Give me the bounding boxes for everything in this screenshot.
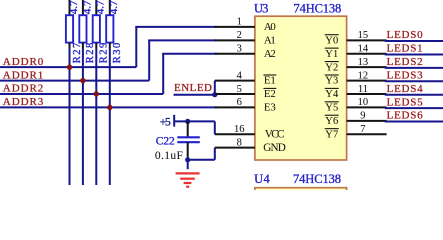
wire LEDS4: [385, 94, 443, 96]
svg-text:74HC138: 74HC138: [294, 1, 342, 15]
pin 2 stub (left): [215, 39, 255, 41]
pin 11 stub (right): [347, 93, 387, 95]
svg-text:Y2: Y2: [325, 62, 338, 73]
pin name E1: [263, 75, 276, 87]
svg-text:14: 14: [358, 44, 369, 55]
IC U4 body (cropped): [255, 188, 347, 200]
svg-text:12: 12: [358, 70, 369, 81]
wire VCC vertical bend: [214, 121, 216, 134]
svg-text:ADDR3: ADDR3: [3, 96, 44, 108]
junction dot ADDR0: [67, 64, 72, 69]
svg-text:ADDR2: ADDR2: [3, 83, 44, 95]
wire LEDS3: [385, 80, 443, 82]
junction dot GND: [185, 157, 190, 162]
svg-text:2: 2: [237, 30, 242, 41]
resistor R29: [93, 0, 110, 63]
resistor R28: [79, 0, 96, 63]
wire ADDR0 to pin 1: [135, 26, 217, 28]
pin 3 stub (left): [215, 53, 255, 55]
svg-text:7: 7: [360, 124, 365, 135]
svg-text:R29: R29: [99, 43, 110, 64]
pin name Y1: [325, 48, 339, 60]
wire ADDR1 to pin 2: [148, 39, 217, 41]
svg-text:Y6: Y6: [325, 116, 338, 127]
svg-text:Y3: Y3: [325, 76, 338, 87]
pin 16 stub (left): [215, 133, 255, 135]
wire ENLED horizontal: [174, 94, 215, 96]
pin 13 stub (right): [347, 66, 387, 68]
pin name E2: [263, 88, 276, 100]
svg-text:1: 1: [237, 17, 242, 28]
pin name Y5: [325, 102, 339, 114]
wire column 2 (vertical): [82, 49, 84, 186]
+5 bar: [173, 115, 175, 127]
wire column 1 (vertical): [69, 49, 71, 186]
svg-text:9: 9: [360, 111, 365, 122]
junction dot ENLED: [212, 92, 217, 97]
svg-text:E1: E1: [264, 75, 276, 87]
svg-text:15: 15: [358, 30, 369, 41]
junction dot +5: [185, 119, 190, 124]
pin name Y6: [325, 115, 339, 127]
wire ADDR0 vertical bend: [135, 27, 137, 67]
svg-text:LEDS2: LEDS2: [387, 56, 423, 68]
wire LEDS6: [385, 121, 443, 123]
svg-text:16: 16: [234, 124, 245, 135]
pin 6 stub (left): [215, 106, 255, 108]
svg-text:+5: +5: [160, 117, 171, 129]
svg-text:LEDS5: LEDS5: [387, 96, 424, 108]
resistor R30: [106, 0, 123, 63]
pin name Y3: [325, 75, 339, 87]
wire GND vertical to pin 8: [214, 148, 216, 160]
svg-text:LEDS0: LEDS0: [387, 29, 424, 41]
wire ADDR3 horizontal: [0, 106, 217, 108]
wire LEDS2: [385, 67, 443, 69]
pin 1 stub (left): [215, 26, 255, 28]
wire ADDR2 horizontal: [0, 93, 163, 95]
svg-text:3: 3: [237, 44, 242, 55]
svg-text:11: 11: [358, 84, 368, 95]
wire ADDR2 vertical bend: [162, 54, 164, 94]
svg-text:GND: GND: [263, 142, 286, 154]
wire ADDR2 to pin 3: [162, 53, 217, 55]
wire +5 to VCC bend: [174, 120, 215, 122]
pin 8 stub (left): [215, 147, 255, 149]
svg-text:ADDR0: ADDR0: [3, 56, 44, 68]
pin 5 stub (left): [215, 93, 255, 95]
svg-text:74HC138: 74HC138: [293, 172, 341, 186]
pin name Y0: [325, 35, 339, 47]
junction dot ADDR2: [94, 91, 99, 96]
wire ADDR0 horizontal: [0, 66, 136, 68]
pin 10 stub (right): [347, 106, 387, 108]
op-amp/IC U3 74HC138 body: [255, 16, 347, 160]
wire GND horizontal: [188, 159, 215, 161]
wire LEDS5: [385, 107, 443, 109]
svg-text:10: 10: [358, 97, 369, 108]
wire column 3 (vertical): [95, 49, 97, 186]
svg-text:A0: A0: [264, 21, 276, 33]
svg-text:Y5: Y5: [325, 103, 338, 114]
svg-text:4: 4: [237, 70, 243, 81]
svg-text:0.1uF: 0.1uF: [155, 150, 183, 162]
pin 14 stub (right): [347, 53, 387, 55]
svg-text:U3: U3: [254, 1, 268, 15]
wire column 4 (vertical): [109, 49, 111, 186]
svg-text:R27: R27: [72, 43, 83, 64]
svg-text:8: 8: [237, 138, 242, 149]
svg-text:5: 5: [237, 84, 242, 95]
svg-text:A1: A1: [264, 34, 276, 46]
svg-text:4.7: 4.7: [81, 0, 93, 14]
svg-text:13: 13: [358, 57, 369, 68]
svg-text:4.7: 4.7: [95, 0, 107, 14]
pin name Y4: [325, 88, 339, 100]
svg-text:VCC: VCC: [265, 128, 285, 140]
svg-text:LEDS4: LEDS4: [387, 83, 424, 95]
wire ADDR1 vertical bend: [148, 40, 150, 80]
capacitor C22: [177, 121, 200, 159]
svg-text:ENLED: ENLED: [174, 82, 212, 94]
pin 7 stub (right): [347, 133, 387, 135]
svg-text:LEDS1: LEDS1: [387, 43, 423, 55]
ground symbol: [176, 160, 200, 187]
svg-text:Y0: Y0: [325, 35, 338, 46]
resistor R27: [66, 0, 83, 63]
svg-text:R30: R30: [112, 43, 123, 64]
svg-text:Y4: Y4: [325, 89, 339, 100]
pin 15 stub (right): [347, 39, 387, 41]
svg-text:A2: A2: [264, 48, 276, 60]
wire LEDS0: [385, 40, 443, 42]
junction dot ADDR3: [107, 105, 112, 110]
svg-text:Y1: Y1: [325, 49, 338, 60]
junction dot ADDR1: [80, 78, 85, 83]
wire ADDR1 horizontal: [0, 80, 149, 82]
svg-text:4.7: 4.7: [108, 0, 120, 14]
svg-text:LEDS3: LEDS3: [387, 70, 424, 82]
svg-text:Y7: Y7: [325, 129, 338, 140]
svg-text:C22: C22: [156, 136, 175, 148]
pin 4 stub (left): [215, 80, 255, 82]
svg-text:6: 6: [237, 97, 242, 108]
pin 9 stub (right): [347, 120, 387, 122]
pin name Y2: [325, 62, 339, 74]
svg-text:ADDR1: ADDR1: [3, 69, 44, 81]
svg-text:LEDS6: LEDS6: [387, 110, 424, 122]
svg-text:R28: R28: [85, 43, 96, 64]
svg-text:E3: E3: [264, 102, 276, 114]
pin name Y7: [325, 129, 339, 141]
wire LEDS1: [385, 53, 443, 55]
svg-text:U4: U4: [254, 172, 270, 186]
wire ENLED vertical to pin 4: [214, 81, 216, 95]
svg-text:4.7: 4.7: [68, 0, 80, 14]
svg-text:E2: E2: [264, 88, 276, 100]
pin 12 stub (right): [347, 80, 387, 82]
